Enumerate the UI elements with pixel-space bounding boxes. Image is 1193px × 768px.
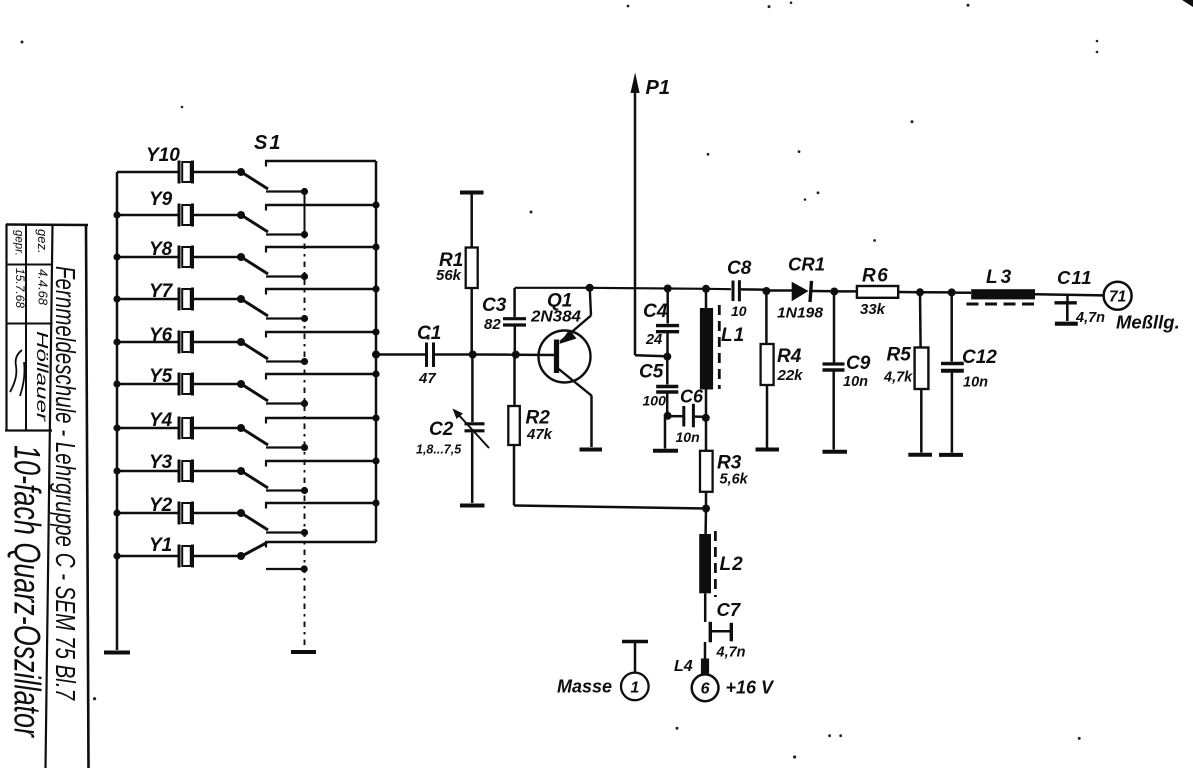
svg-text:15.7.68: 15.7.68 (13, 268, 27, 308)
svg-text:R3: R3 (717, 453, 742, 474)
svg-text:1,8...7,5: 1,8...7,5 (416, 443, 462, 457)
svg-text:C3: C3 (482, 295, 507, 316)
svg-text:Meßllg.: Meßllg. (1116, 312, 1180, 333)
svg-text:+16 V: +16 V (726, 678, 776, 698)
svg-text:S1: S1 (254, 132, 282, 154)
svg-text:10n: 10n (843, 374, 868, 390)
svg-text:Y2: Y2 (149, 495, 173, 516)
svg-text:Masse: Masse (557, 677, 612, 697)
svg-text:C12: C12 (962, 347, 997, 368)
svg-text:5,6k: 5,6k (720, 472, 749, 488)
svg-text:71: 71 (1109, 289, 1126, 306)
svg-text:C1: C1 (417, 323, 441, 344)
svg-text:56k: 56k (436, 267, 462, 284)
svg-text:10-fach Quarz-Oszillator: 10-fach Quarz-Oszillator (7, 445, 48, 738)
svg-text:10n: 10n (676, 429, 700, 445)
svg-text:33k: 33k (860, 301, 886, 318)
svg-text:24: 24 (645, 332, 662, 348)
svg-text:R4: R4 (777, 346, 802, 367)
svg-text:R6: R6 (862, 266, 889, 287)
svg-text:Y8: Y8 (149, 239, 173, 260)
svg-text:Höllauer: Höllauer (33, 331, 50, 422)
svg-text:L1: L1 (721, 325, 745, 346)
svg-text:C11: C11 (1057, 267, 1093, 288)
svg-text:gepr.: gepr. (13, 230, 25, 256)
svg-text:Y4: Y4 (149, 410, 173, 431)
svg-text:4,7n: 4,7n (1075, 310, 1105, 326)
svg-text:47: 47 (418, 370, 436, 387)
svg-text:10n: 10n (963, 375, 988, 391)
svg-text:6: 6 (701, 681, 710, 698)
svg-text:C9: C9 (846, 353, 871, 374)
svg-text:Y1: Y1 (149, 535, 172, 556)
svg-text:Y9: Y9 (149, 189, 173, 210)
svg-text:10: 10 (731, 303, 747, 319)
svg-text:P1: P1 (646, 77, 670, 99)
svg-text:C2: C2 (429, 419, 454, 440)
svg-text:2N384: 2N384 (530, 309, 581, 326)
svg-text:CR1: CR1 (788, 254, 825, 275)
svg-text:Y3: Y3 (149, 452, 173, 473)
svg-text:100: 100 (643, 393, 667, 409)
svg-text:82: 82 (484, 316, 501, 333)
svg-text:Y7: Y7 (149, 281, 174, 302)
svg-text:Y10: Y10 (146, 145, 180, 166)
svg-text:C8: C8 (727, 258, 752, 279)
svg-text:C7: C7 (717, 599, 742, 620)
svg-text:L2: L2 (720, 554, 744, 575)
svg-text:22k: 22k (777, 367, 804, 384)
svg-text:4.4.68: 4.4.68 (36, 269, 51, 306)
svg-text:L3: L3 (986, 267, 1014, 288)
svg-text:C4: C4 (643, 301, 668, 322)
svg-text:4,7k: 4,7k (883, 370, 913, 386)
svg-text:1N198: 1N198 (777, 306, 824, 322)
svg-text:gez.: gez. (35, 229, 50, 254)
svg-text:L4: L4 (674, 658, 693, 675)
svg-text:R5: R5 (887, 345, 912, 366)
svg-text:1: 1 (630, 679, 639, 696)
svg-text:Fernmeldeschule - Lehrgruppe: Fernmeldeschule - Lehrgruppe C - SEM 75 … (50, 266, 81, 701)
svg-text:Y6: Y6 (149, 325, 173, 346)
svg-text:C5: C5 (639, 362, 664, 383)
svg-text:Y5: Y5 (149, 366, 173, 387)
svg-text:47k: 47k (526, 426, 553, 443)
svg-text:4,7n: 4,7n (716, 645, 746, 661)
